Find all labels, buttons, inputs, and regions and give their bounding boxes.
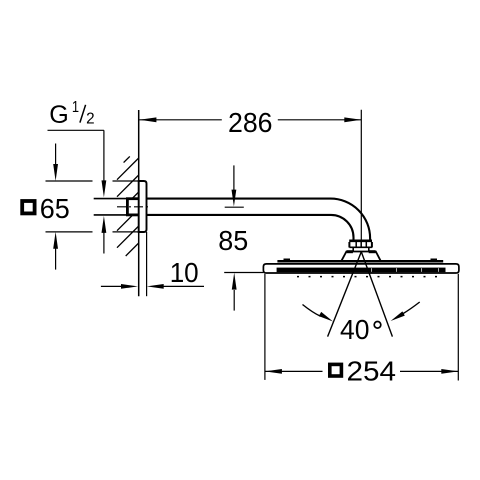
svg-text:10: 10: [170, 257, 199, 288]
svg-text:65: 65: [40, 193, 70, 224]
svg-text:1: 1: [72, 99, 79, 116]
svg-text:286: 286: [228, 107, 273, 138]
svg-text:40: 40: [340, 314, 370, 345]
svg-text:85: 85: [218, 225, 248, 256]
svg-text:G: G: [49, 101, 69, 129]
svg-text:254: 254: [347, 356, 397, 387]
svg-text:2: 2: [86, 110, 95, 127]
